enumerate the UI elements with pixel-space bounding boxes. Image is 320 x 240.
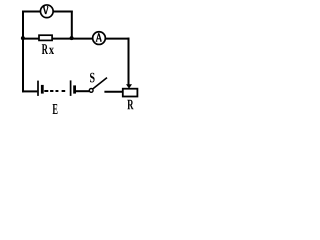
label E (battery) [53, 104, 58, 114]
wire: main horizontal through Rx and ammeter [22, 38, 129, 40]
battery E: dashed link between cells [44, 90, 65, 92]
wire: top horizontal (voltmeter branch) [22, 11, 73, 13]
node: right junction [70, 36, 74, 40]
wire: voltmeter branch right drop [71, 11, 73, 39]
ammeter A [93, 32, 106, 45]
label Rx (resistor) [42, 44, 48, 54]
resistor Rx body [39, 35, 52, 40]
battery E: cell 2 short thick plate [73, 85, 76, 93]
battery E: cell 1 long plate [37, 81, 39, 96]
label S (switch) [90, 73, 95, 83]
wire: left vertical (top loop to battery) [22, 11, 24, 93]
rheostat slider arrowhead [126, 84, 132, 88]
node: left junction [21, 36, 25, 40]
wire: switch to rheostat [104, 91, 123, 93]
voltmeter V [40, 5, 53, 18]
wire: battery to switch [76, 90, 89, 92]
wire: bottom horizontal battery side [22, 90, 37, 92]
switch S: open blade [93, 78, 107, 89]
wire: right vertical to rheostat slider [128, 38, 130, 85]
battery E: cell 2 long plate [70, 80, 72, 96]
switch S: pivot terminal circle [89, 89, 93, 93]
rheostat R body [123, 89, 138, 97]
battery E: cell 1 short thick plate [41, 85, 44, 94]
label R (rheostat) [127, 100, 133, 110]
